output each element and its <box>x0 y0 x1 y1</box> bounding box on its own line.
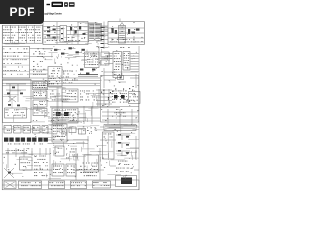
schematic page <box>0 0 149 198</box>
header box: document code <box>64 2 68 6</box>
strip module E <box>93 181 111 188</box>
relay box K1 (left of J1) <box>101 52 109 57</box>
label box LB3 <box>33 100 47 107</box>
component group rows right <box>116 134 130 156</box>
strip module B <box>19 181 42 189</box>
net label column right of U3 <box>33 49 46 75</box>
capacitors C1-C3 in line filter <box>112 28 140 34</box>
wires right lower band5 <box>102 109 138 124</box>
IC U12B: cluster <box>66 149 78 159</box>
value labels in standby supply (lower right) <box>68 37 85 41</box>
ref labels band2 <box>40 46 137 65</box>
strip module C <box>49 181 65 189</box>
wires under center block <box>48 106 100 124</box>
wires in line filter <box>108 28 144 43</box>
PDF badge overlay <box>0 0 44 24</box>
transformer T1: hatched winding block <box>89 24 102 41</box>
bus wires (4 lines) <box>2 78 100 86</box>
marks left of U6 <box>50 91 60 101</box>
wires: band8 feeders <box>2 148 100 180</box>
diode D9 <box>17 105 20 107</box>
IC U7C: cluster below divider right <box>112 109 126 116</box>
IC U14: boxed cluster <box>79 155 99 176</box>
svg-text:Supply Voltage Overview: Supply Voltage Overview <box>43 11 63 15</box>
ref labels band4-5 <box>33 91 139 123</box>
marks row left band8 <box>6 150 27 153</box>
wires from U3 to center <box>30 49 54 57</box>
wire: top stubs <box>104 19 120 50</box>
block U3: tall left I/O box <box>3 47 30 79</box>
IC U7A: dense cluster x80-96 <box>80 91 96 101</box>
IC U7B: dense cluster x112-128 <box>112 91 128 103</box>
IC U9: center block <box>52 124 67 142</box>
block frame: standby supply section <box>43 22 88 45</box>
filter module F4 <box>33 126 41 134</box>
block U6C: wide short box bottom-left <box>5 108 27 118</box>
page border left <box>1 25 3 190</box>
block U12 <box>55 146 64 156</box>
filter module F2 <box>14 126 22 134</box>
logo dash in page header <box>47 4 51 5</box>
module frame bottom right <box>116 176 137 187</box>
power routing mesh (center-right) <box>96 89 112 106</box>
section frame: deflection supply (left) <box>3 80 32 123</box>
label box LB2 <box>33 91 47 98</box>
strip module A (crossed box) <box>4 181 16 189</box>
wire bundle: band5 center routing <box>53 94 100 122</box>
capacitors C5-C7 right of IC <box>70 26 86 35</box>
block U13A <box>52 164 64 176</box>
wire bundle: band8 routing <box>7 151 137 179</box>
bridge rectifier BR1 (dark box) <box>121 178 132 185</box>
block U10: left box <box>20 157 33 170</box>
diode D8 <box>8 104 11 106</box>
connector J1: tall pin housing <box>113 52 122 78</box>
hatch row top-right band6 <box>104 125 136 131</box>
resistors R1-R4 left of IC <box>47 27 56 39</box>
wire bundle: band4-5 left routing <box>3 89 50 122</box>
strip module D <box>71 181 87 189</box>
page border right (lower) <box>138 46 140 190</box>
bottom strip frame <box>2 180 139 190</box>
filter module F5 <box>42 126 48 134</box>
wires lower right band3 <box>118 74 139 88</box>
labels under rectifier row <box>8 143 43 146</box>
block U13B <box>66 164 76 176</box>
wires from U3 lower pins <box>30 70 49 74</box>
ref labels band3 <box>38 68 138 87</box>
ref labels band8 <box>3 148 137 177</box>
value labels bottom of line filter <box>110 39 139 42</box>
ref labels band6-7 <box>10 124 137 147</box>
block U1: control IC grid (top-left) <box>3 25 43 43</box>
wire bundle: band6 routing <box>46 125 139 137</box>
value labels in standby supply (lower left) <box>45 37 60 41</box>
wire bundle: band2 routing <box>44 49 112 66</box>
wire bundle: band7 routing <box>52 136 139 160</box>
capacitor C9 <box>118 76 124 80</box>
output rectifier row D10-D17 (dark) <box>4 138 48 142</box>
IC U5: dense block <box>48 67 62 87</box>
resistor network RN1 <box>80 69 95 75</box>
diodes D20 diagonal pair (bottom-left) <box>4 168 14 178</box>
label box LB4 <box>33 109 47 116</box>
wire: band6 left link <box>2 128 52 130</box>
labels under line filter <box>120 46 129 49</box>
block U7: right small box <box>129 92 141 104</box>
header box: sheet number <box>69 2 75 6</box>
terminal strip TB1 <box>85 52 100 68</box>
small boxes right of U9 <box>69 127 97 134</box>
capacitor tower CT1 (tall box right) <box>103 132 115 159</box>
IC U8: center dense block with pads <box>52 108 78 123</box>
filter module F3 <box>23 126 31 134</box>
IC U6: center box <box>62 89 78 102</box>
section frame: secondary rails (right) <box>101 76 139 123</box>
connector J2: second housing <box>123 52 130 71</box>
IC U1B: tall IC in standby supply <box>60 26 67 43</box>
page border right (top section) <box>143 22 145 45</box>
IC U16: cluster right <box>116 161 133 172</box>
wire ladder right of J2 <box>131 54 139 72</box>
IC U5B: marks right of U5 <box>63 71 78 84</box>
IC U11: dark cluster right <box>34 156 48 176</box>
wire bundle: band3 routing <box>38 87 66 138</box>
relay box K2 (left of J1) <box>101 60 109 65</box>
junction dots in right mesh <box>101 88 136 102</box>
wires between diodes <box>57 46 99 64</box>
section divider center y106-107 <box>50 107 139 108</box>
wire bundle: top-left under badge <box>4 41 25 44</box>
wires inside standby supply <box>44 22 88 44</box>
diodes D1-D5 row <box>54 47 85 54</box>
wire: band7 right <box>100 136 139 160</box>
pin list left of line filter <box>101 27 109 48</box>
logo box (brand) in page header <box>52 2 64 7</box>
ref labels band1 <box>44 22 142 44</box>
block frame: line filter section (top-right) <box>108 22 144 45</box>
wire: strip bus <box>3 184 116 186</box>
wire: vertical feed right of bus <box>104 68 138 88</box>
label box LB1 <box>33 82 48 90</box>
heatsink / regulator tower center of line filter <box>119 23 126 44</box>
wires from rectifier row <box>48 136 89 162</box>
heavy bus segment center <box>78 75 98 77</box>
wires band8 horizontal links <box>22 166 139 170</box>
wire: bridge between T1 and line filter <box>102 26 109 34</box>
wires from J1 to left <box>104 54 113 64</box>
wire: band6 right link <box>100 126 139 128</box>
transistor circuit inside deflection supply <box>6 84 26 102</box>
wire bundle: band1 routing <box>47 22 109 44</box>
filter module F1 <box>4 126 12 134</box>
